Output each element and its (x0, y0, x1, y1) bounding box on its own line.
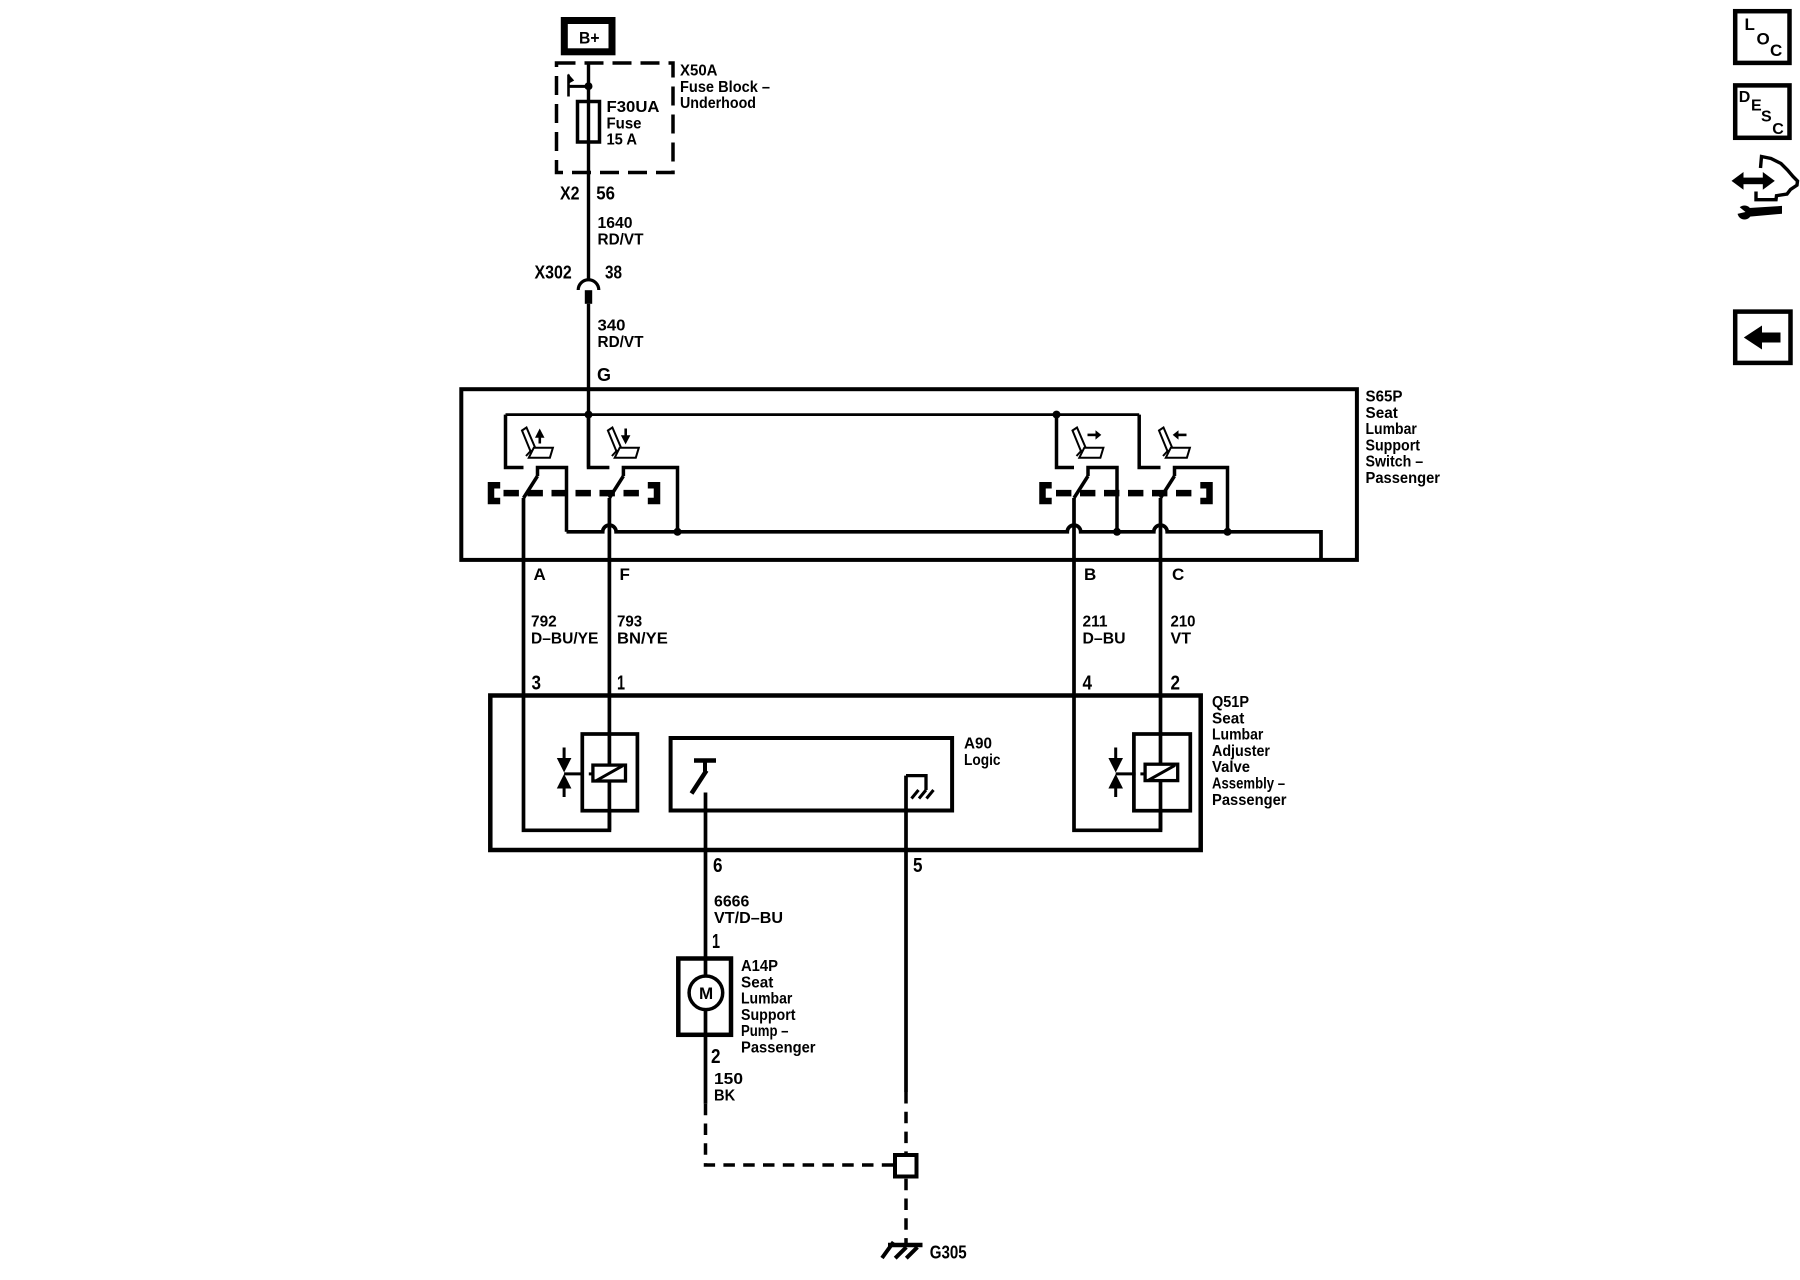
svg-text:X302: X302 (535, 263, 572, 283)
svg-text:D: D (1739, 89, 1751, 106)
svg-text:Seat: Seat (741, 974, 774, 991)
svg-text:F: F (620, 565, 630, 584)
svg-text:F30UA: F30UA (607, 99, 660, 116)
svg-text:Lumbar: Lumbar (1366, 421, 1417, 438)
svg-text:1: 1 (617, 673, 625, 695)
svg-text:2: 2 (1171, 673, 1181, 695)
svg-text:Fuse Block –: Fuse Block – (680, 79, 770, 96)
svg-text:340: 340 (598, 318, 626, 335)
svg-text:Underhood: Underhood (680, 95, 756, 112)
svg-text:B: B (1084, 565, 1096, 584)
svg-text:3: 3 (532, 673, 542, 695)
svg-text:B+: B+ (579, 29, 600, 48)
svg-text:56: 56 (596, 184, 615, 204)
svg-text:1640: 1640 (598, 215, 633, 232)
svg-text:Seat: Seat (1212, 710, 1245, 727)
svg-text:C: C (1172, 565, 1184, 584)
svg-text:Passenger: Passenger (741, 1040, 816, 1057)
svg-text:793: 793 (617, 614, 642, 631)
svg-text:2: 2 (711, 1046, 721, 1068)
svg-text:Support: Support (1366, 437, 1421, 454)
svg-text:Passenger: Passenger (1366, 470, 1441, 487)
svg-text:38: 38 (605, 263, 622, 283)
svg-text:BN/YE: BN/YE (617, 631, 668, 648)
svg-text:15 A: 15 A (607, 132, 638, 149)
svg-text:A90: A90 (964, 736, 992, 753)
svg-text:Seat: Seat (1366, 405, 1399, 422)
svg-text:D–BU/YE: D–BU/YE (531, 631, 599, 648)
svg-text:1: 1 (712, 931, 720, 953)
svg-text:VT: VT (1171, 631, 1192, 648)
svg-text:X2: X2 (560, 184, 580, 204)
svg-text:Lumbar: Lumbar (1212, 727, 1263, 744)
svg-text:Adjuster: Adjuster (1212, 743, 1270, 760)
svg-text:G305: G305 (930, 1243, 967, 1263)
svg-text:BK: BK (714, 1087, 736, 1104)
svg-text:D–BU: D–BU (1083, 631, 1126, 648)
svg-text:C: C (1770, 41, 1782, 60)
svg-text:G: G (597, 365, 611, 385)
svg-text:211: 211 (1083, 614, 1108, 631)
svg-text:Q51P: Q51P (1212, 694, 1249, 711)
svg-text:O: O (1757, 29, 1770, 48)
svg-text:792: 792 (531, 614, 557, 631)
svg-text:5: 5 (913, 855, 923, 877)
svg-text:210: 210 (1171, 614, 1196, 631)
svg-text:C: C (1772, 121, 1784, 138)
svg-text:Logic: Logic (964, 752, 1001, 769)
svg-text:Switch –: Switch – (1366, 454, 1424, 471)
svg-text:Assembly –: Assembly – (1212, 776, 1285, 793)
svg-text:M: M (699, 984, 713, 1003)
svg-text:Valve: Valve (1212, 759, 1250, 776)
svg-text:Lumbar: Lumbar (741, 991, 792, 1008)
svg-text:A: A (534, 565, 546, 584)
svg-text:S: S (1761, 108, 1772, 125)
svg-text:A14P: A14P (741, 958, 778, 975)
svg-text:L: L (1745, 15, 1755, 34)
svg-text:VT/D–BU: VT/D–BU (714, 910, 783, 927)
svg-text:4: 4 (1083, 673, 1093, 695)
svg-text:X50A: X50A (680, 63, 718, 80)
svg-text:Passenger: Passenger (1212, 792, 1287, 809)
svg-text:S65P: S65P (1366, 389, 1403, 406)
svg-text:Fuse: Fuse (607, 115, 642, 132)
svg-text:Support: Support (741, 1007, 796, 1024)
svg-text:150: 150 (714, 1071, 743, 1088)
svg-text:6: 6 (713, 855, 723, 877)
svg-text:RD/VT: RD/VT (598, 334, 644, 351)
svg-text:Pump –: Pump – (741, 1023, 789, 1040)
svg-text:6666: 6666 (714, 894, 749, 911)
svg-text:RD/VT: RD/VT (598, 231, 644, 248)
